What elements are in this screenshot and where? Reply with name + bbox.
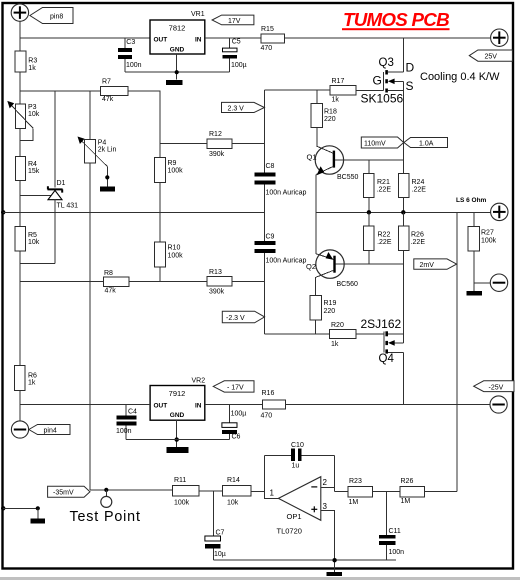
svg-text:Q4: Q4 (379, 353, 395, 365)
svg-text:100n Auricap: 100n Auricap (266, 189, 307, 196)
wire P3 to R4 (19, 128, 21, 156)
svg-text:-25V: -25V (489, 385, 504, 392)
svg-text:GND: GND (170, 47, 185, 54)
svg-text:100µ: 100µ (231, 410, 247, 417)
node test point (104, 488, 108, 492)
wire R27 to LS- (474, 282, 490, 284)
svg-text:1M: 1M (349, 499, 359, 506)
wire R26 bottom to Q4 drain (402, 264, 404, 334)
resistor R3 (15, 51, 37, 72)
capacitor C8 (254, 163, 306, 241)
svg-text:25V: 25V (485, 54, 498, 61)
label flag -17V (213, 381, 254, 392)
capacitor C3 (118, 38, 142, 72)
wire R16 to -25V connector (286, 404, 491, 406)
label flag -25V (474, 381, 514, 392)
wire C4-GND-C6 rail (126, 439, 229, 441)
wire VR1 GND drop (176, 54, 178, 80)
wire R9 to R10 (159, 182, 161, 242)
wire y=90 to R17/R18 node (264, 89, 330, 91)
svg-text:390k: 390k (209, 288, 225, 295)
svg-text:VR2: VR2 (192, 377, 206, 384)
capacitor C6 (222, 405, 246, 441)
svg-text:.22E: .22E (377, 239, 392, 246)
svg-text:390k: 390k (209, 151, 225, 158)
regulator VR2 7912 (150, 377, 205, 420)
resistor R11 (173, 477, 200, 507)
label flag -35mV (48, 486, 90, 497)
resistor R4 (16, 157, 40, 181)
wire Q2 base to right (336, 263, 404, 265)
mosfet Q3 SK1056 (361, 38, 415, 106)
svg-text:R5: R5 (28, 232, 37, 239)
svg-text:470: 470 (261, 45, 273, 52)
svg-text:GND: GND (170, 412, 185, 419)
svg-text:P4: P4 (98, 139, 107, 146)
svg-text:100k: 100k (174, 500, 190, 507)
svg-text:R3: R3 (28, 57, 37, 64)
transistor Q2 BC560 (306, 250, 358, 296)
wire output rail right (316, 211, 490, 213)
resistor R19 (310, 296, 336, 321)
svg-text:Q1: Q1 (307, 152, 317, 161)
svg-text:100k: 100k (481, 237, 497, 244)
label flag pin4 (29, 425, 70, 435)
potentiometer P3 (7, 101, 39, 141)
label flag pin8 (30, 8, 73, 24)
capacitor C7 (205, 491, 226, 560)
bottom window strip (0, 577, 520, 580)
svg-text:R12: R12 (209, 131, 222, 138)
resistor R16 (261, 390, 286, 419)
wire R14 to op-amp (251, 490, 264, 492)
svg-text:R22: R22 (378, 231, 391, 238)
svg-text:R13: R13 (209, 269, 222, 276)
svg-text:Cooling 0.4 K/W: Cooling 0.4 K/W (420, 71, 500, 83)
svg-text:470: 470 (261, 412, 273, 419)
svg-text:47k: 47k (105, 288, 117, 295)
op-amp OP1 TL0720 (270, 477, 328, 536)
svg-text:C8: C8 (266, 163, 275, 170)
svg-text:R10: R10 (168, 245, 181, 252)
svg-text:IN: IN (195, 403, 202, 410)
diode D1 TL431 (48, 91, 79, 264)
node gnd stub (36, 506, 40, 510)
label flag 1.0A (404, 138, 448, 148)
svg-text:LS 6 Ohm: LS 6 Ohm (456, 197, 487, 204)
svg-text:220: 220 (324, 308, 336, 315)
svg-text:R24: R24 (412, 179, 425, 186)
resistor R10 (154, 242, 183, 267)
test point circle (70, 490, 141, 525)
svg-text:Test Point: Test Point (70, 509, 141, 525)
resistor R21 (364, 160, 392, 213)
wire C3-GND-C5 rail (125, 71, 230, 73)
wire pin8 drop (19, 21, 21, 51)
svg-text:.22E: .22E (411, 239, 426, 246)
resistor R20 (329, 322, 356, 348)
svg-text:100k: 100k (168, 252, 184, 259)
svg-text:R7: R7 (102, 79, 111, 86)
connector LS+ (circle +) (491, 203, 508, 220)
label flag 2mV (414, 259, 457, 269)
svg-text:1u: 1u (292, 462, 300, 469)
svg-text:7912: 7912 (169, 389, 186, 398)
svg-text:2: 2 (323, 478, 328, 487)
svg-text:VR1: VR1 (191, 11, 205, 18)
resistor R23 (348, 478, 373, 506)
wire Q1 base to right (335, 159, 403, 161)
svg-text:7812: 7812 (169, 24, 186, 33)
svg-text:R8: R8 (104, 270, 113, 277)
node VR2 gnd junction (175, 437, 179, 441)
wire R26 to feedback vertical (425, 490, 457, 492)
svg-text:110mV: 110mV (364, 141, 386, 148)
wire R23 to R26 (373, 490, 401, 492)
svg-text:10k: 10k (28, 239, 40, 246)
regulator VR1 7812 (150, 11, 205, 54)
svg-text:R16: R16 (262, 390, 275, 397)
resistor R9 (154, 157, 183, 182)
svg-text:BC560: BC560 (337, 281, 359, 288)
svg-text:3: 3 (323, 502, 328, 511)
wire R15 to +25V connector (285, 37, 491, 39)
wire VR1 IN to R15 (205, 37, 261, 39)
svg-text:-35mV: -35mV (53, 490, 74, 497)
capacitor C9 (254, 234, 306, 334)
svg-text:100n: 100n (389, 549, 405, 556)
svg-text:.22E: .22E (377, 186, 392, 193)
svg-text:-2.3 V: -2.3 V (226, 315, 245, 322)
connector LS- (circle -) (490, 274, 507, 291)
svg-text:1M: 1M (401, 498, 411, 505)
wire op-amp plus input to ground rail (321, 511, 335, 572)
svg-text:1k: 1k (28, 380, 36, 387)
resistor R26 (1M) (400, 478, 424, 505)
svg-text:2.3 V: 2.3 V (228, 106, 245, 113)
svg-text:R19: R19 (324, 300, 337, 307)
svg-text:R23: R23 (349, 478, 362, 485)
ground at input (31, 508, 46, 523)
resistor R24 (398, 174, 426, 213)
resistor R6 (15, 366, 38, 391)
wire Q4 source down to -25V rail (402, 352, 404, 404)
resistor R26 (.22E) (398, 212, 425, 264)
svg-text:C5: C5 (232, 39, 241, 46)
wire Q1/Q2 emitter vertical (315, 174, 317, 253)
resistor R17 (330, 78, 356, 104)
svg-text:S: S (406, 79, 414, 93)
svg-text:10k: 10k (227, 500, 239, 507)
svg-text:2k Lin: 2k Lin (98, 147, 117, 154)
node border gnd junction (1, 506, 5, 510)
svg-text:OUT: OUT (154, 403, 168, 410)
svg-text:C6: C6 (232, 433, 241, 440)
svg-text:P3: P3 (28, 104, 37, 111)
node bottom rail (332, 558, 336, 562)
ground below R27 (467, 283, 482, 296)
resistor R15 (261, 26, 285, 52)
wire R13 row (160, 281, 207, 283)
svg-text:R26: R26 (411, 231, 424, 238)
wire feedback vertical (456, 212, 458, 491)
svg-text:TL 431: TL 431 (57, 203, 79, 210)
wire VR2 GND drop (176, 420, 178, 447)
node rail R24 (401, 210, 405, 214)
svg-text:.22E: .22E (412, 186, 427, 193)
svg-text:100n: 100n (116, 428, 132, 435)
capacitor C11 (379, 491, 404, 560)
wire R13 right to input bus (232, 281, 264, 283)
svg-text:15k: 15k (28, 168, 40, 175)
wire R8 to R10 node (129, 281, 160, 283)
wire op-amp minus input (321, 487, 335, 489)
svg-text:10µ: 10µ (214, 551, 226, 558)
resistor R22 (364, 212, 392, 264)
svg-text:C10: C10 (291, 442, 304, 449)
svg-text:OP1: OP1 (287, 512, 302, 521)
svg-text:R27: R27 (481, 229, 494, 236)
wire R7 right to R9 drop (128, 91, 160, 157)
wire y=91 horizontal to R7 (20, 90, 100, 92)
svg-text:C7: C7 (216, 529, 225, 536)
wire test point row (90, 489, 173, 491)
svg-text:IN: IN (195, 37, 202, 44)
svg-text:220: 220 (324, 116, 336, 123)
svg-text:100k: 100k (168, 168, 184, 175)
connector -25V (circle -) (490, 396, 507, 413)
ground under VR2 (167, 447, 189, 453)
wire R20 to Q4 gate (356, 333, 384, 335)
label flag 17V (212, 15, 254, 25)
svg-text:R9: R9 (168, 160, 177, 167)
wire pin4 row to VR2 OUT (20, 404, 150, 406)
svg-text:100µ: 100µ (231, 62, 247, 69)
wire op-amp output jog (265, 491, 279, 498)
svg-text:1k: 1k (332, 97, 340, 104)
wire input bus x=264 top (263, 90, 265, 172)
svg-text:17V: 17V (228, 18, 241, 25)
wire top rail left (pin8 to VR1 OUT) (20, 37, 150, 39)
svg-text:1k: 1k (331, 341, 339, 348)
resistor R8 (103, 270, 129, 295)
wire Q3 source down to R24 (402, 90, 404, 173)
svg-text:TUMOS PCB: TUMOS PCB (343, 9, 449, 30)
label flag 25V (469, 50, 512, 61)
wire R8 row (20, 281, 103, 283)
svg-text:1: 1 (270, 488, 275, 497)
connector pin8 (circle +) (11, 4, 28, 21)
wire left rail y=212 (3, 211, 264, 213)
wire bottom ground rail (214, 559, 396, 561)
capacitor C10 feedback (265, 442, 335, 491)
resistor R5 (15, 212, 40, 251)
wire R11 to R14 (199, 490, 223, 492)
svg-text:pin4: pin4 (44, 428, 57, 435)
label flag 110mV (361, 137, 403, 148)
svg-text:TL0720: TL0720 (277, 527, 302, 536)
connector +25V (circle +) (491, 29, 508, 46)
ground below frame (327, 572, 343, 576)
svg-text:OUT: OUT (154, 37, 168, 44)
svg-text:R18: R18 (324, 108, 337, 115)
resistor R7 (100, 79, 128, 103)
wire C9 bottom to R19/R20 row (264, 333, 329, 335)
potentiometer P4 (78, 91, 117, 192)
wire R17 to Q3 gate (356, 89, 384, 91)
svg-text:1k: 1k (28, 65, 36, 72)
connector pin4 (circle -) (11, 421, 28, 438)
wire R19 bottom (315, 320, 317, 334)
svg-text:C9: C9 (266, 234, 275, 241)
svg-text:Q2: Q2 (306, 262, 316, 271)
svg-text:R21: R21 (377, 179, 390, 186)
wire R4 bottom to rail (19, 181, 21, 213)
svg-text:R14: R14 (227, 477, 240, 484)
svg-text:R4: R4 (28, 161, 37, 168)
wire R10 bottom to R8/R13 row (159, 267, 161, 282)
wire D1 ref (20, 194, 51, 196)
svg-text:R6: R6 (28, 372, 37, 379)
label flag -2.3 V (222, 311, 264, 323)
svg-text:C11: C11 (389, 528, 401, 535)
wire VR2 IN right (205, 404, 263, 406)
resistor R14 (223, 477, 252, 507)
wire minus node to R23 (335, 490, 349, 492)
wire R5 bottom / D1 anode node (20, 251, 55, 365)
wire P4 line down to test point row (89, 163, 91, 490)
resistor R12 (160, 131, 264, 158)
node rail R21 (367, 210, 371, 214)
svg-text:Q3: Q3 (379, 57, 394, 69)
resistor R27 (468, 212, 497, 283)
svg-text:R26: R26 (401, 478, 414, 485)
svg-text:D1: D1 (57, 180, 66, 187)
mosfet Q4 2SJ162 (361, 317, 404, 365)
svg-text:2SJ162: 2SJ162 (361, 317, 402, 331)
svg-text:D: D (406, 61, 415, 75)
svg-text:SK1056: SK1056 (361, 92, 404, 106)
capacitor C4 (116, 405, 137, 440)
svg-text:100n: 100n (126, 62, 142, 69)
svg-text:R20: R20 (331, 322, 344, 329)
svg-text:BC550: BC550 (337, 174, 359, 181)
svg-text:R11: R11 (174, 477, 186, 484)
svg-text:- 17V: - 17V (227, 385, 244, 392)
node border-rail junction (1, 210, 5, 214)
svg-text:R17: R17 (332, 78, 345, 85)
svg-text:C4: C4 (128, 409, 137, 416)
svg-text:G: G (373, 74, 382, 88)
svg-text:pin8: pin8 (50, 14, 63, 21)
label flag 2.3 V (222, 102, 265, 112)
transistor Q1 BC550 (307, 128, 359, 181)
capacitor C5 (223, 38, 247, 72)
svg-text:100n Auricap: 100n Auricap (266, 257, 307, 264)
svg-text:47k: 47k (102, 96, 114, 103)
wire border to gnd stub (3, 507, 38, 509)
svg-text:R15: R15 (261, 26, 274, 33)
wire R3 bottom to y91 node (19, 72, 21, 104)
svg-text:10k: 10k (28, 111, 40, 118)
node VR1 gnd junction (175, 70, 179, 74)
ground under VR1 (166, 80, 182, 85)
resistor R18 (311, 90, 337, 127)
svg-text:1.0A: 1.0A (419, 140, 434, 147)
svg-text:2mV: 2mV (420, 262, 435, 269)
wire R6 bottom to pin4 (19, 391, 21, 421)
resistor R13 (207, 269, 232, 295)
svg-text:C3: C3 (126, 39, 135, 46)
